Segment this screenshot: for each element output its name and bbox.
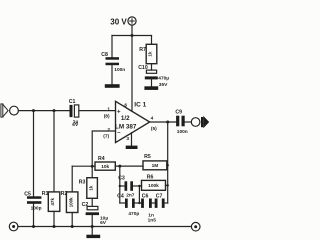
resistor R7	[146, 44, 157, 63]
wire R2 to ground	[71, 213, 73, 227]
wire C9 to output terminal	[185, 121, 192, 123]
ground rail	[18, 226, 191, 228]
svg-text:1k: 1k	[88, 185, 93, 191]
svg-text:10k: 10k	[101, 164, 109, 170]
ground bar below IC	[126, 146, 138, 149]
svg-text:R7: R7	[139, 47, 146, 53]
chassis ground bar	[86, 235, 100, 238]
svg-text:R6: R6	[147, 175, 154, 181]
svg-text:2n7: 2n7	[126, 192, 135, 198]
wire R2 link	[72, 165, 92, 167]
svg-text:C7: C7	[156, 194, 163, 200]
svg-text:(7): (7)	[103, 134, 109, 140]
node output junction	[166, 121, 169, 124]
wire input	[18, 110, 69, 112]
svg-text:C1: C1	[69, 99, 76, 105]
wire pin2 inverting	[92, 131, 115, 166]
svg-text:C2: C2	[82, 202, 89, 208]
input terminal circle	[10, 106, 19, 115]
node C5 tap	[32, 109, 35, 112]
op-amp U1 triangle	[116, 101, 150, 142]
wire output	[150, 121, 176, 123]
svg-text:−: −	[117, 131, 121, 137]
svg-text:470µ: 470µ	[158, 76, 169, 82]
wire C3 to R6	[133, 185, 142, 187]
node C3 left	[119, 185, 121, 187]
svg-text:R3: R3	[79, 180, 86, 186]
wire link between rows	[138, 186, 140, 203]
resistor R2	[66, 192, 78, 213]
svg-text:R4: R4	[98, 156, 105, 162]
wire R7 branch	[151, 36, 153, 45]
wire R3 drop	[91, 166, 93, 178]
wire C4 to C6	[135, 202, 141, 204]
svg-text:(5): (5)	[151, 126, 157, 132]
output arrow solid	[201, 116, 209, 128]
supply terminal 30V	[128, 17, 136, 25]
svg-text:C5: C5	[24, 191, 31, 197]
svg-text:100n: 100n	[114, 67, 125, 73]
svg-text:1M: 1M	[152, 163, 159, 169]
node link bottom	[138, 202, 140, 204]
node R4 R5 junction	[118, 165, 121, 168]
svg-text:35V: 35V	[159, 82, 168, 88]
wire C2 to chassis	[91, 215, 93, 235]
svg-text:1k: 1k	[148, 51, 153, 57]
node R1 ground	[53, 225, 56, 228]
node R6 right	[167, 184, 169, 186]
svg-text:6V: 6V	[72, 122, 79, 128]
ground terminal left	[9, 222, 18, 231]
svg-text:2: 2	[107, 127, 110, 133]
capacitor C10	[145, 70, 158, 79]
wire R7 to C10	[151, 64, 153, 70]
wire C4 left	[120, 202, 125, 204]
svg-text:C3: C3	[118, 175, 125, 181]
resistor R5	[143, 161, 167, 170]
wire to R4	[92, 165, 95, 167]
wire C7 to line	[165, 202, 168, 204]
wire R3 to C2	[91, 198, 93, 206]
capacitor C4	[125, 199, 135, 208]
node C2 ground crossing	[91, 225, 94, 228]
capacitor C7	[155, 199, 165, 208]
capacitor C1	[70, 105, 79, 117]
svg-text:100n: 100n	[177, 129, 188, 135]
wire C8 branch	[111, 36, 113, 58]
wire output to feedback line	[167, 122, 169, 203]
resistor R4	[95, 162, 115, 170]
svg-text:R5: R5	[144, 154, 151, 160]
wire R2 drop	[71, 166, 73, 192]
svg-text:C4: C4	[117, 194, 124, 200]
node R2 ground	[71, 225, 74, 228]
wire R5 to line	[166, 164, 169, 166]
svg-text:R2: R2	[61, 191, 68, 197]
wire to IC supply pin	[131, 36, 133, 112]
svg-text:LM 387: LM 387	[115, 123, 137, 130]
svg-text:3: 3	[126, 136, 129, 142]
wire supply branch	[112, 35, 152, 37]
svg-text:R1: R1	[42, 191, 49, 197]
capacitor C3	[125, 181, 134, 191]
wire C3 left	[120, 185, 125, 187]
wire supply drop	[131, 25, 133, 35]
node supply junction	[131, 34, 134, 37]
wire C6 to C7	[152, 202, 155, 204]
svg-text:IC 1: IC 1	[134, 101, 146, 108]
wire network left line	[119, 166, 121, 203]
svg-text:100k: 100k	[68, 197, 73, 207]
wire C5 to ground	[33, 204, 35, 227]
svg-text:6: 6	[124, 103, 127, 109]
capacitor C6	[141, 199, 152, 208]
capacitor C9	[176, 116, 185, 127]
svg-text:470p: 470p	[128, 211, 139, 217]
ground bar below C10	[144, 86, 158, 90]
capacitor C5	[27, 196, 41, 204]
ground terminal right	[191, 222, 200, 231]
wire R1 to ground	[53, 211, 55, 226]
svg-text:C9: C9	[175, 109, 182, 115]
svg-text:1/2: 1/2	[121, 115, 130, 122]
resistor R3	[87, 178, 98, 199]
svg-text:C6: C6	[142, 194, 149, 200]
node link top	[138, 185, 140, 187]
svg-text:(8): (8)	[104, 114, 110, 120]
wire C10 to ground	[151, 79, 153, 86]
svg-text:100k: 100k	[148, 183, 159, 189]
svg-text:C10: C10	[138, 65, 148, 71]
wire R4 to R5	[115, 165, 143, 167]
svg-text:47k: 47k	[50, 198, 55, 206]
svg-text:1: 1	[107, 106, 110, 112]
ground bar below C8	[105, 84, 120, 88]
resistor R1	[48, 192, 60, 212]
output terminal circle	[191, 118, 200, 127]
svg-text:1n5: 1n5	[148, 217, 157, 223]
wire R1 drop	[53, 111, 55, 192]
capacitor C2	[86, 206, 99, 215]
wire IC ground pin	[131, 133, 133, 146]
node C5 ground	[32, 225, 35, 228]
node pin2 junction	[91, 165, 94, 168]
svg-text:6V: 6V	[100, 220, 107, 226]
wire C5 drop	[33, 111, 35, 197]
svg-text:30 V: 30 V	[110, 17, 127, 26]
svg-text:C8: C8	[101, 52, 108, 58]
resistor R6	[142, 180, 166, 190]
svg-text:4: 4	[151, 116, 154, 122]
capacitor C8	[106, 57, 120, 65]
svg-text:100p: 100p	[31, 206, 42, 212]
wire R6 to line	[166, 184, 168, 186]
node R1 tap	[53, 109, 56, 112]
input terminal arrow	[1, 104, 8, 117]
wire C1 to IC	[79, 110, 116, 112]
wire C8 to ground	[111, 65, 113, 84]
node R5 right	[167, 164, 169, 166]
